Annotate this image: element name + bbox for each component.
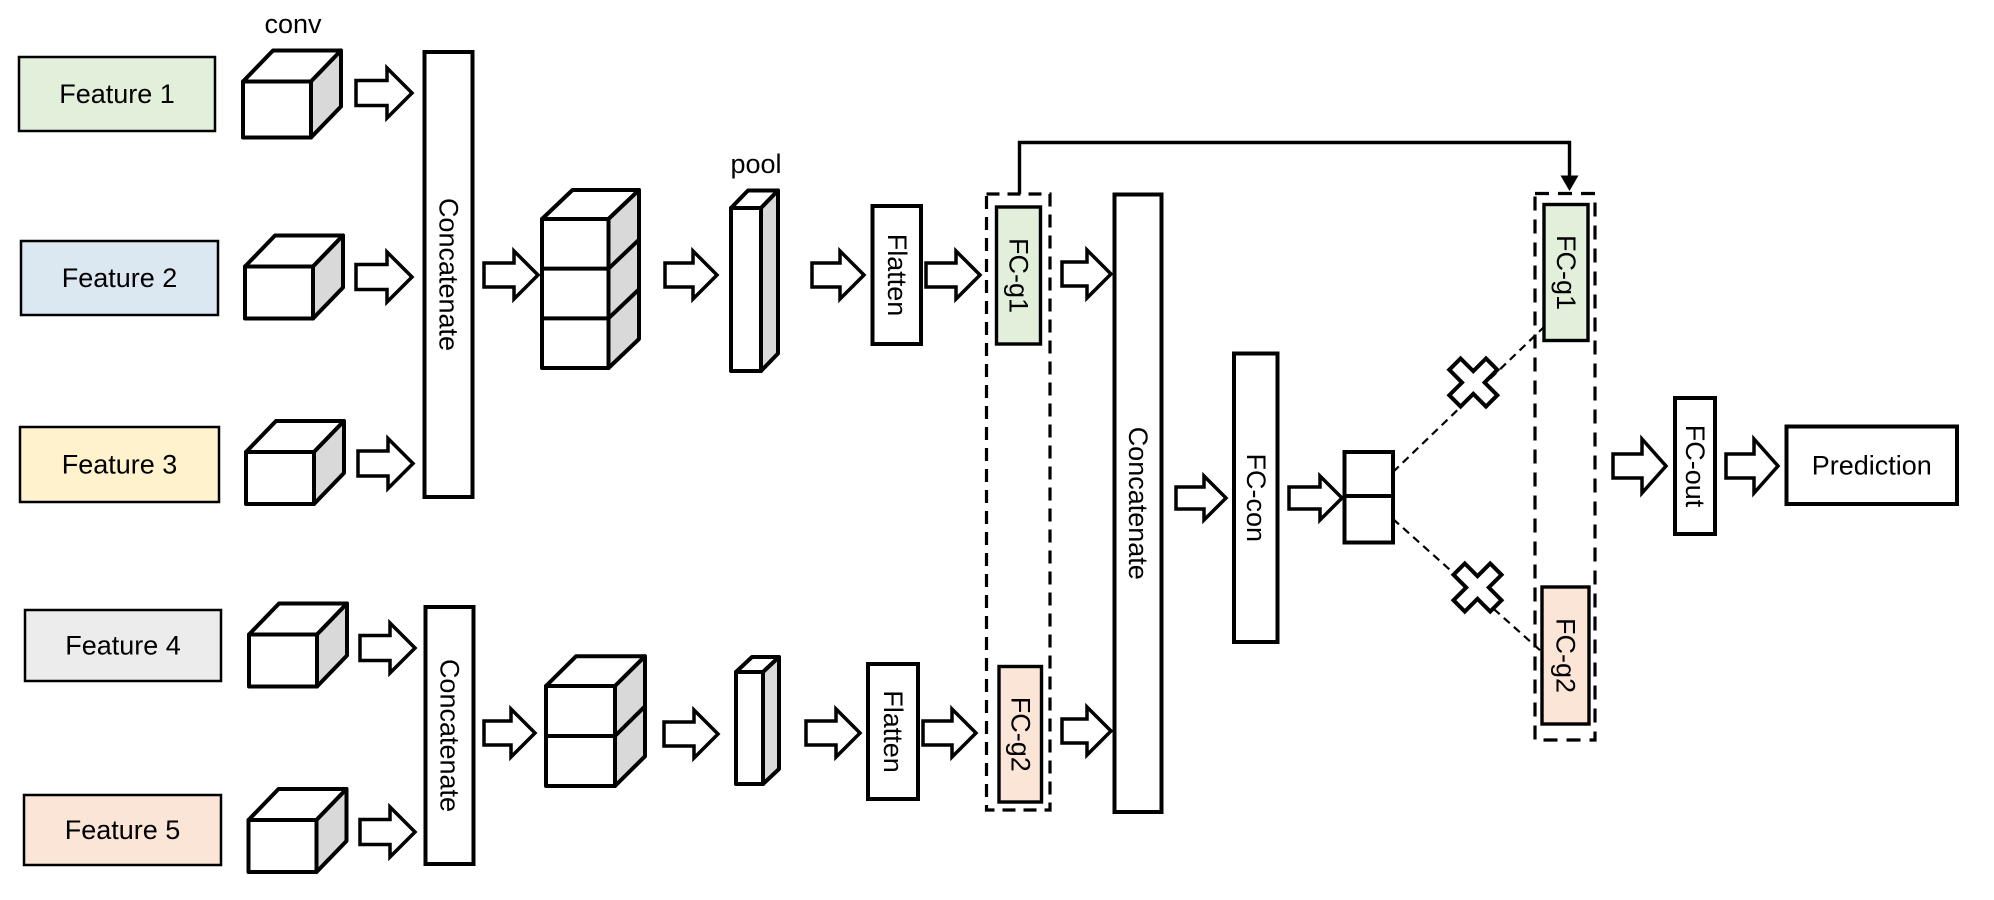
FC-g2 box right bbox=[1542, 587, 1589, 724]
arrow Concatenate-mid to FC-con bbox=[1176, 476, 1226, 520]
arrow FC-g1 to Concatenate-mid bbox=[1062, 250, 1111, 298]
FC-g2 box left bbox=[999, 667, 1042, 803]
arrow Feature2 conv to Concatenate bbox=[356, 252, 412, 302]
multiply mark lower bbox=[1454, 564, 1502, 612]
stacked feature maps group 1 bbox=[542, 190, 639, 368]
conv cube row 4 bbox=[249, 604, 347, 687]
svg-text:conv: conv bbox=[264, 9, 322, 39]
multiply mark upper bbox=[1449, 359, 1497, 407]
arrow FC-con to gate units bbox=[1289, 476, 1342, 520]
arrow Feature1 conv to Concatenate bbox=[356, 68, 412, 118]
arrow Flatten1 to FC-g1 bbox=[926, 251, 980, 299]
input box Feature 5 bbox=[24, 795, 221, 865]
svg-text:FC-g2: FC-g2 bbox=[1551, 618, 1581, 693]
svg-text:Flatten: Flatten bbox=[878, 690, 908, 773]
svg-text:FC-con: FC-con bbox=[1241, 453, 1271, 542]
arrow Concatenate2 to stacked maps2 bbox=[484, 709, 535, 757]
conv cube row 5 bbox=[249, 789, 347, 872]
conv cube row 3 bbox=[246, 421, 344, 504]
arrow stacked maps to pool1 bbox=[665, 251, 717, 299]
Prediction box bbox=[1787, 427, 1958, 505]
pooled map group 2 bbox=[736, 657, 779, 784]
arrow stacked maps2 to pool2 bbox=[664, 710, 718, 758]
arrow Feature4 conv to Concatenate bbox=[360, 623, 415, 673]
FC-g1 box left bbox=[997, 207, 1041, 344]
arrow FC-g2 to Concatenate-mid bbox=[1062, 707, 1111, 755]
svg-text:Feature 2: Feature 2 bbox=[62, 263, 178, 293]
arrow Concatenate1 to stacked maps bbox=[484, 251, 538, 299]
Flatten box group 1 bbox=[873, 206, 922, 344]
arrow pool2 to Flatten2 bbox=[806, 709, 860, 757]
conv cube row 2 bbox=[245, 236, 343, 319]
arrow pool1 to Flatten1 bbox=[812, 251, 864, 299]
feedback wire arrowhead bbox=[1561, 176, 1579, 192]
FC-con box bbox=[1234, 354, 1278, 643]
input box Feature 4 bbox=[25, 610, 221, 681]
Concatenate box group 1 bbox=[425, 52, 473, 497]
svg-text:Concatenate: Concatenate bbox=[434, 198, 464, 351]
stacked feature maps group 2 bbox=[546, 656, 645, 786]
dashed container around right FC-g1 and FC-g2 bbox=[1535, 194, 1595, 741]
arrow right container to FC-out bbox=[1613, 439, 1666, 493]
svg-text:Prediction: Prediction bbox=[1812, 450, 1932, 480]
dashed connector gate to FC-g2 right bbox=[1393, 519, 1542, 652]
svg-text:Feature 5: Feature 5 bbox=[65, 815, 181, 845]
FC-g1 box right bbox=[1544, 205, 1588, 341]
input box Feature 2 bbox=[21, 241, 218, 315]
arrow Flatten2 to FC-g2 bbox=[923, 709, 976, 757]
svg-text:FC-out: FC-out bbox=[1680, 425, 1710, 508]
svg-text:Feature 1: Feature 1 bbox=[59, 79, 175, 109]
arrow Feature5 conv to Concatenate bbox=[360, 807, 415, 857]
svg-text:pool: pool bbox=[730, 149, 781, 179]
FC-out box bbox=[1675, 398, 1715, 534]
input box Feature 1 bbox=[19, 57, 215, 131]
dashed connector gate to FC-g1 right bbox=[1393, 327, 1544, 472]
Concatenate box middle bbox=[1115, 195, 1162, 813]
svg-text:Concatenate: Concatenate bbox=[1123, 427, 1153, 580]
conv cube row 1 bbox=[243, 51, 341, 138]
svg-text:Feature 3: Feature 3 bbox=[62, 450, 178, 480]
arrow Feature3 conv to Concatenate bbox=[358, 439, 413, 489]
pooled map group 1 bbox=[731, 191, 778, 372]
svg-text:FC-g2: FC-g2 bbox=[1005, 697, 1035, 772]
gate units 2-cell box bbox=[1345, 452, 1394, 543]
input box Feature 3 bbox=[20, 427, 219, 502]
Concatenate box group 2 bbox=[426, 607, 474, 864]
svg-text:Concatenate: Concatenate bbox=[435, 659, 465, 812]
svg-text:Feature 4: Feature 4 bbox=[65, 631, 181, 661]
svg-text:FC-g1: FC-g1 bbox=[1551, 235, 1581, 310]
feedback wire from FC-g1 container to right container bbox=[1020, 143, 1570, 195]
arrow FC-out to Prediction bbox=[1726, 439, 1778, 493]
dashed container around FC-g1 and FC-g2 bbox=[987, 194, 1051, 810]
svg-text:Flatten: Flatten bbox=[882, 234, 912, 317]
Flatten box group 2 bbox=[868, 664, 918, 799]
svg-text:FC-g1: FC-g1 bbox=[1004, 238, 1034, 313]
